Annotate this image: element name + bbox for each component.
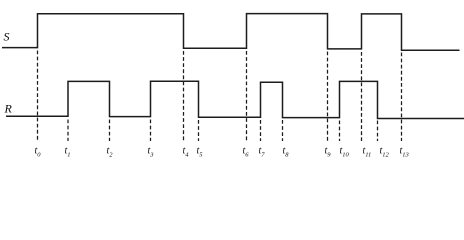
svg-text:t7: t7 xyxy=(259,146,266,159)
dashed timeline t12 (R fall) xyxy=(377,121,379,142)
svg-text:S: S xyxy=(4,30,10,44)
svg-text:t5: t5 xyxy=(197,146,204,159)
svg-text:t8: t8 xyxy=(283,146,290,159)
dashed timeline t11 (S rise) xyxy=(361,52,363,141)
svg-text:t3: t3 xyxy=(148,146,155,159)
dashed timeline t9 (S fall) xyxy=(327,52,329,142)
signal S waveform trace xyxy=(2,14,460,51)
dashed timeline t1 (R rise) xyxy=(67,120,69,142)
svg-text:t12: t12 xyxy=(380,146,390,159)
svg-text:t9: t9 xyxy=(325,146,332,159)
dashed timeline t4 (S fall) xyxy=(183,51,185,141)
svg-text:t1: t1 xyxy=(65,146,71,159)
dashed timeline t3 (R rise) xyxy=(150,120,152,142)
svg-text:t10: t10 xyxy=(340,146,350,159)
dashed timeline t10 (R rise) xyxy=(339,121,341,142)
dashed timeline t0 (S rise) xyxy=(37,51,39,142)
signal R waveform trace xyxy=(6,81,464,118)
svg-text:t2: t2 xyxy=(107,146,114,159)
svg-text:t13: t13 xyxy=(400,146,410,159)
svg-text:t11: t11 xyxy=(363,146,372,159)
dashed timeline t13 (S fall) xyxy=(401,53,403,142)
dashed timeline t7 (R rise) xyxy=(260,120,262,141)
svg-text:R: R xyxy=(4,102,13,116)
dashed timeline t2 (R fall) xyxy=(109,120,111,142)
dashed timeline t6 (S rise) xyxy=(246,51,248,141)
dashed timeline t8 (R fall) xyxy=(282,120,284,141)
svg-text:t4: t4 xyxy=(183,146,190,159)
dashed timeline t5 (R fall) xyxy=(198,120,200,141)
svg-text:t6: t6 xyxy=(243,146,250,159)
svg-text:t0: t0 xyxy=(35,146,42,159)
